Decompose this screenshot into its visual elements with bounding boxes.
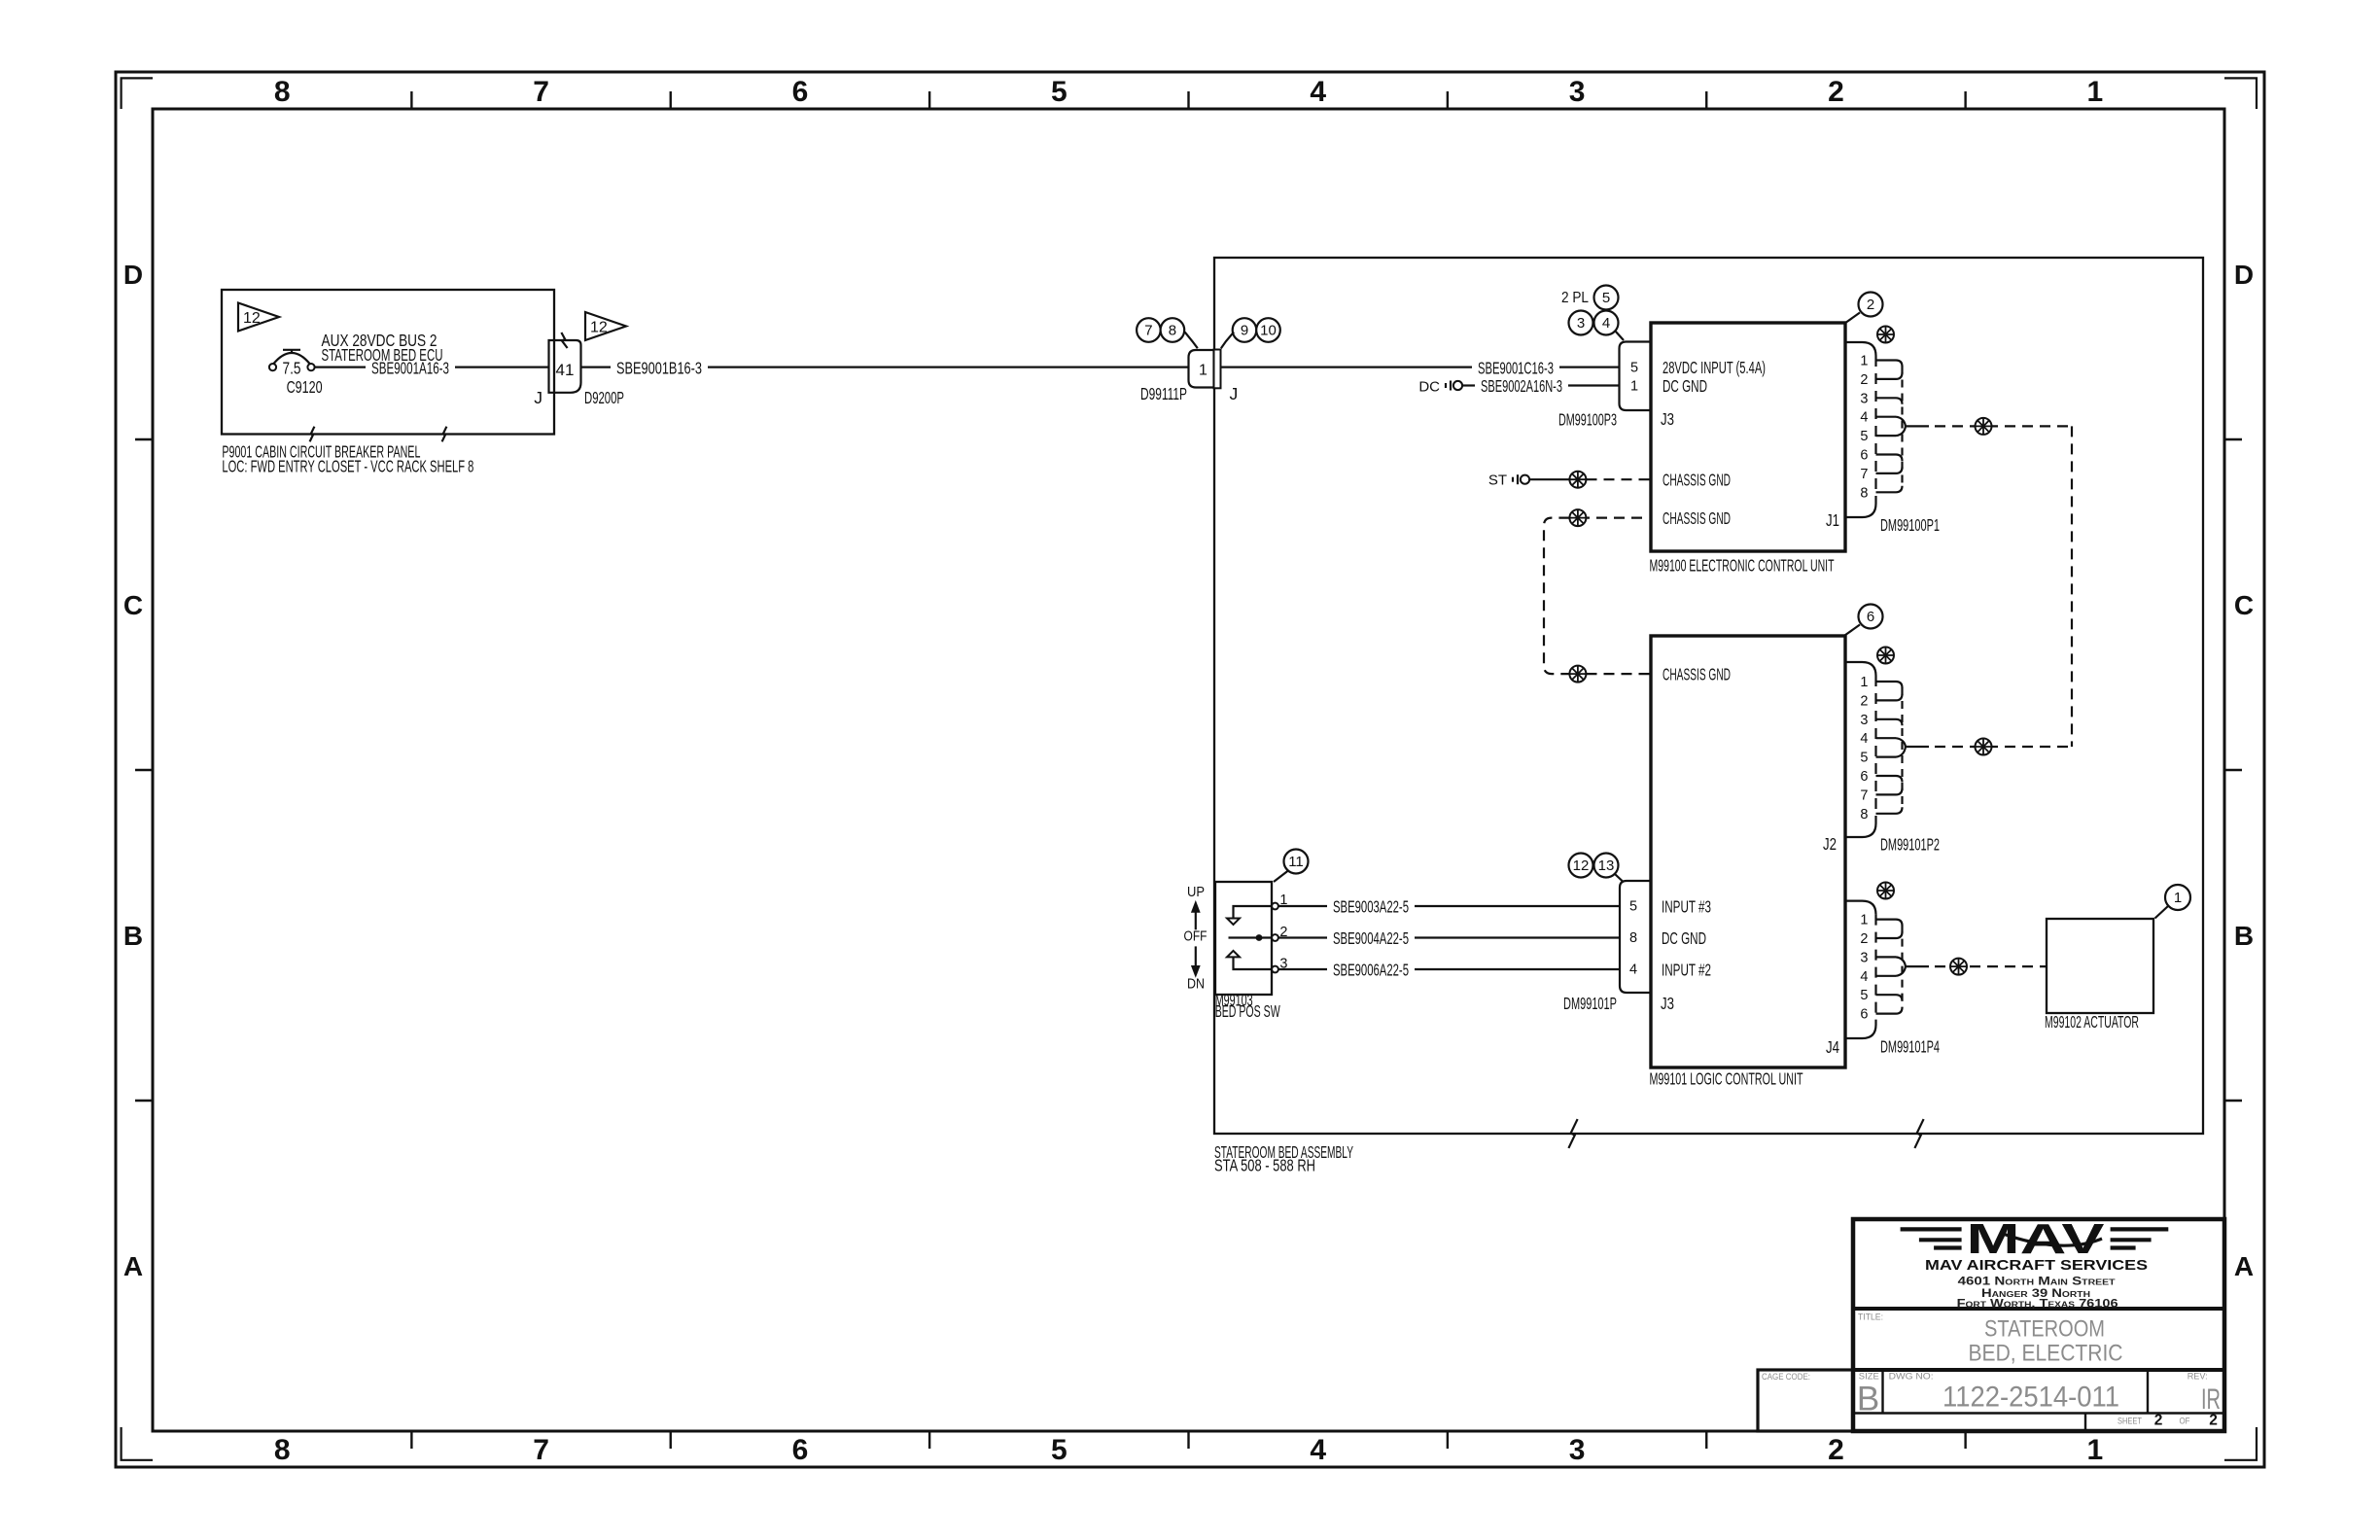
svg-text:11: 11	[1288, 854, 1304, 870]
svg-text:4: 4	[1310, 1434, 1326, 1466]
svg-text:5: 5	[1860, 988, 1868, 1003]
svg-text:MAV: MAV	[1967, 1215, 2106, 1263]
svg-text:STA 508 - 588 RH: STA 508 - 588 RH	[1214, 1156, 1315, 1175]
svg-text:1: 1	[1860, 675, 1868, 690]
svg-text:1: 1	[2086, 76, 2103, 108]
svg-text:28VDC INPUT (5.4A): 28VDC INPUT (5.4A)	[1662, 358, 1766, 377]
svg-text:4: 4	[1860, 410, 1868, 426]
svg-text:BED, ELECTRIC: BED, ELECTRIC	[1969, 1341, 2123, 1367]
svg-text:SBE9001B16-3: SBE9001B16-3	[616, 358, 702, 377]
svg-text:OF: OF	[2180, 1416, 2190, 1426]
svg-text:DN: DN	[1187, 975, 1205, 992]
svg-text:5: 5	[1629, 899, 1637, 915]
svg-text:1: 1	[1630, 378, 1638, 394]
svg-text:D: D	[123, 260, 143, 290]
svg-text:6: 6	[1860, 448, 1868, 464]
svg-text:Fort Worth, Texas 76106: Fort Worth, Texas 76106	[1957, 1299, 2118, 1311]
svg-text:B: B	[123, 921, 143, 951]
svg-text:B: B	[1857, 1381, 1879, 1418]
svg-text:5: 5	[1630, 360, 1638, 375]
svg-text:J: J	[534, 388, 542, 407]
svg-text:2: 2	[2154, 1412, 2163, 1428]
svg-text:41: 41	[556, 361, 575, 379]
svg-text:7: 7	[1144, 323, 1152, 339]
svg-text:4: 4	[1860, 731, 1868, 747]
svg-text:2 PL: 2 PL	[1561, 290, 1589, 306]
svg-text:3: 3	[1569, 1434, 1586, 1466]
svg-text:5: 5	[1860, 429, 1868, 444]
svg-text:8: 8	[1860, 807, 1868, 822]
svg-text:8: 8	[1860, 485, 1868, 501]
svg-text:J4: J4	[1826, 1037, 1839, 1057]
svg-text:2: 2	[2209, 1412, 2218, 1428]
svg-text:DC GND: DC GND	[1662, 376, 1707, 396]
svg-text:SBE9001C16-3: SBE9001C16-3	[1478, 358, 1554, 377]
svg-text:4: 4	[1602, 315, 1610, 332]
svg-text:CHASSIS GND: CHASSIS GND	[1662, 664, 1731, 683]
svg-text:M99102 ACTUATOR: M99102 ACTUATOR	[2045, 1012, 2139, 1032]
svg-text:2: 2	[1860, 693, 1868, 709]
svg-text:DM99101P2: DM99101P2	[1880, 835, 1940, 855]
svg-text:2: 2	[1867, 297, 1874, 313]
svg-text:INPUT #3: INPUT #3	[1662, 896, 1711, 916]
svg-text:2: 2	[1828, 1434, 1844, 1466]
svg-text:INPUT #2: INPUT #2	[1662, 960, 1711, 979]
svg-text:STATEROOM: STATEROOM	[1984, 1316, 2105, 1343]
svg-text:SBE9003A22-5: SBE9003A22-5	[1333, 896, 1409, 916]
svg-text:M99101 LOGIC CONTROL UNIT: M99101 LOGIC CONTROL UNIT	[1650, 1069, 1803, 1089]
svg-text:3: 3	[1860, 391, 1868, 406]
svg-text:BED POS SW: BED POS SW	[1215, 1001, 1280, 1021]
svg-text:B: B	[2234, 921, 2254, 951]
svg-text:D99111P: D99111P	[1140, 384, 1187, 403]
svg-text:IR: IR	[2201, 1383, 2221, 1416]
svg-text:8: 8	[1629, 930, 1637, 946]
svg-text:12: 12	[590, 320, 608, 336]
svg-text:5: 5	[1051, 76, 1067, 108]
svg-text:4: 4	[1860, 969, 1868, 985]
svg-text:D9200P: D9200P	[584, 388, 624, 407]
svg-text:4601 North Main Street: 4601 North Main Street	[1958, 1277, 2116, 1288]
svg-text:7: 7	[533, 76, 549, 108]
svg-text:6: 6	[792, 1434, 809, 1466]
svg-text:3: 3	[1577, 315, 1585, 332]
svg-text:C: C	[123, 590, 143, 620]
svg-text:8: 8	[274, 1434, 291, 1466]
svg-text:J3: J3	[1661, 409, 1674, 429]
svg-text:CAGE CODE:: CAGE CODE:	[1762, 1372, 1810, 1382]
svg-text:4: 4	[1629, 962, 1637, 978]
svg-text:8: 8	[1169, 323, 1176, 339]
svg-text:4: 4	[1310, 76, 1326, 108]
svg-text:7.5: 7.5	[283, 358, 301, 377]
svg-text:1: 1	[2086, 1434, 2103, 1466]
svg-text:CHASSIS GND: CHASSIS GND	[1662, 508, 1731, 528]
svg-text:LOC: FWD ENTRY CLOSET - VCC RA: LOC: FWD ENTRY CLOSET - VCC RACK SHELF 8	[222, 456, 473, 475]
svg-text:1: 1	[1199, 363, 1207, 379]
svg-text:1: 1	[2174, 890, 2182, 906]
svg-text:6: 6	[1860, 1007, 1868, 1023]
svg-text:7: 7	[1860, 787, 1868, 803]
svg-text:C: C	[2234, 590, 2254, 620]
svg-text:SHEET: SHEET	[2117, 1416, 2142, 1426]
svg-text:5: 5	[1051, 1434, 1067, 1466]
svg-text:UP: UP	[1187, 884, 1205, 900]
svg-text:5: 5	[1860, 751, 1868, 766]
svg-text:J3: J3	[1661, 994, 1674, 1013]
svg-text:DM99100P1: DM99100P1	[1880, 515, 1940, 535]
svg-text:C9120: C9120	[287, 377, 323, 397]
svg-text:8: 8	[274, 76, 291, 108]
svg-text:SBE9006A22-5: SBE9006A22-5	[1333, 960, 1409, 979]
svg-text:TITLE:: TITLE:	[1858, 1312, 1883, 1323]
svg-text:A: A	[123, 1251, 143, 1281]
svg-text:7: 7	[533, 1434, 549, 1466]
svg-text:SBE9002A16N-3: SBE9002A16N-3	[1481, 376, 1562, 396]
svg-text:J2: J2	[1823, 834, 1837, 854]
svg-text:5: 5	[1602, 290, 1610, 306]
svg-text:OFF: OFF	[1184, 927, 1207, 944]
svg-text:DM99101P4: DM99101P4	[1880, 1037, 1940, 1057]
svg-text:3: 3	[1860, 713, 1868, 728]
svg-text:2: 2	[1828, 76, 1844, 108]
svg-text:6: 6	[1867, 609, 1874, 625]
svg-text:12: 12	[1573, 857, 1590, 874]
svg-text:3: 3	[1569, 76, 1586, 108]
svg-text:A: A	[2234, 1251, 2254, 1281]
svg-text:10: 10	[1260, 323, 1277, 339]
svg-text:13: 13	[1598, 857, 1615, 874]
svg-text:J1: J1	[1826, 510, 1839, 530]
svg-text:9: 9	[1241, 323, 1248, 339]
svg-text:SBE9001A16-3: SBE9001A16-3	[371, 358, 449, 377]
svg-text:ST: ST	[1488, 472, 1507, 489]
svg-text:1: 1	[1860, 354, 1868, 369]
svg-text:M99100 ELECTRONIC CONTROL UNIT: M99100 ELECTRONIC CONTROL UNIT	[1650, 556, 1835, 576]
svg-text:1122-2514-011: 1122-2514-011	[1942, 1382, 2119, 1414]
svg-text:DM99101P: DM99101P	[1563, 994, 1617, 1013]
svg-text:DC: DC	[1418, 378, 1440, 395]
svg-text:MAV AIRCRAFT SERVICES: MAV AIRCRAFT SERVICES	[1925, 1257, 2148, 1274]
svg-text:7: 7	[1860, 467, 1868, 482]
svg-text:2: 2	[1860, 372, 1868, 388]
svg-text:12: 12	[243, 310, 261, 327]
svg-text:CHASSIS GND: CHASSIS GND	[1662, 471, 1731, 490]
svg-text:6: 6	[1860, 769, 1868, 785]
svg-text:DWG NO:: DWG NO:	[1889, 1372, 1934, 1382]
svg-text:DC GND: DC GND	[1662, 928, 1706, 948]
svg-text:D: D	[2234, 260, 2254, 290]
svg-text:DM99100P3: DM99100P3	[1558, 410, 1617, 430]
svg-text:6: 6	[792, 76, 809, 108]
svg-text:SBE9004A22-5: SBE9004A22-5	[1333, 928, 1409, 948]
svg-text:J: J	[1230, 384, 1239, 403]
svg-text:3: 3	[1860, 950, 1868, 965]
svg-text:2: 2	[1860, 931, 1868, 947]
svg-text:1: 1	[1860, 913, 1868, 928]
svg-text:REV:: REV:	[2187, 1372, 2208, 1382]
